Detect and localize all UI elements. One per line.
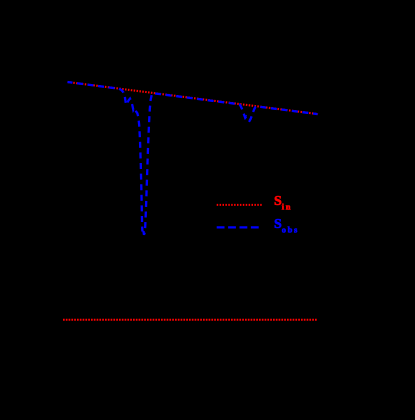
curve S_in: red dotted sloping line xyxy=(68,82,319,114)
bottom red dotted horizontal line xyxy=(63,319,317,321)
legend sample: blue dashed xyxy=(217,226,260,228)
legend sample: red dotted xyxy=(217,204,262,206)
curve S_obs: blue dashed line with two absorption dips xyxy=(68,82,318,235)
